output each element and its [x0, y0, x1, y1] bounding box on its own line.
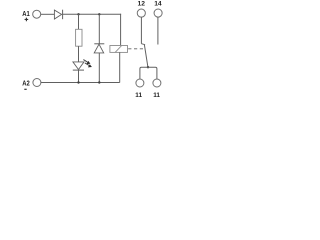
fixed contact seat 12: [141, 44, 145, 45]
wire diode D1 to corner, top bus: [63, 13, 122, 15]
fork to terminals 11: [140, 67, 157, 79]
svg-text:11: 11: [153, 92, 160, 99]
mechanical link dashed: [128, 48, 145, 50]
relay coil K1: [110, 46, 128, 53]
terminal 11 right circle: [153, 79, 161, 87]
node junction top of diode D2 chain: [98, 13, 100, 15]
node junction top of resistor chain: [77, 13, 79, 15]
wire resistor R1 to LED: [78, 46, 80, 62]
LED emission arrows: [83, 60, 92, 68]
svg-text:A2: A2: [22, 79, 30, 88]
terminal 14 label: [154, 1, 162, 8]
terminal A1 label: [22, 9, 30, 21]
wire bus to resistor R1: [78, 14, 80, 29]
wire top bus corner down to relay coil: [120, 14, 122, 46]
diode D2 freewheeling: [94, 44, 104, 53]
wire bus to diode D2: [98, 14, 100, 44]
wire diode D2 to bottom bus: [98, 53, 100, 83]
svg-text:11: 11: [135, 92, 142, 99]
wire A2 bottom bus: [41, 82, 120, 84]
terminal A1 circle: [33, 10, 41, 18]
wire relay coil to bottom bus: [119, 52, 121, 82]
svg-text:14: 14: [154, 1, 162, 8]
wire LED to bottom bus: [78, 70, 80, 82]
terminal 11 right label: [153, 92, 160, 99]
terminal 12 label: [138, 1, 146, 8]
wire terminal 12 to fixed contact: [140, 17, 142, 44]
svg-text:A1: A1: [22, 9, 30, 18]
terminal 11 left label: [135, 92, 142, 99]
resistor R1: [76, 29, 82, 46]
terminal 12 circle: [137, 9, 145, 17]
node junction blade to fork: [147, 66, 149, 68]
wire A1 to diode D1: [41, 13, 55, 15]
terminal A2 label: [22, 79, 30, 90]
contact blade: [144, 45, 148, 67]
terminal A2 circle: [33, 79, 41, 87]
svg-text:12: 12: [138, 1, 146, 8]
terminal 11 left circle: [136, 79, 144, 87]
wire terminal 14 to fixed contact: [157, 17, 159, 44]
node junction LED on bottom bus: [77, 81, 79, 83]
node junction diode D2 on bottom bus: [98, 81, 100, 83]
diode D1: [54, 10, 62, 20]
terminal 14 circle: [154, 9, 162, 17]
LED: [73, 62, 84, 70]
